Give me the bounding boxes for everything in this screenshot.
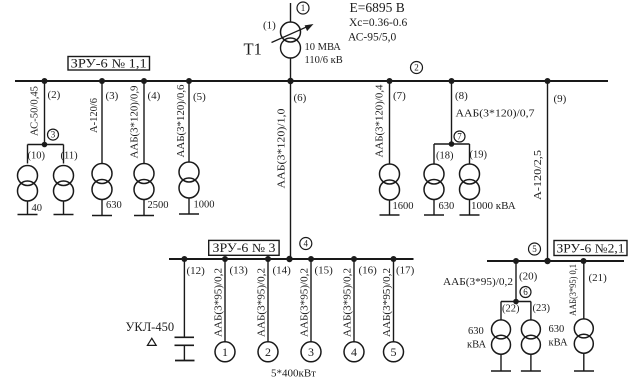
svg-text:ААБ(3*120)/1,0: ААБ(3*120)/1,0 — [276, 108, 288, 189]
ground — [424, 214, 444, 216]
transformer 4 — [134, 164, 154, 200]
svg-text:2: 2 — [265, 345, 271, 359]
wire branch 23 — [530, 302, 532, 321]
ground — [134, 215, 154, 217]
junction feeder 12 — [181, 256, 187, 262]
svg-text:ААБ(3*95)/0,2: ААБ(3*95)/0,2 — [443, 276, 513, 288]
junction feeder 13 — [222, 256, 228, 262]
node 1 — [297, 2, 309, 14]
wire feeder 21 — [583, 261, 585, 319]
svg-text:(4): (4) — [148, 90, 161, 102]
svg-text:(5): (5) — [193, 91, 206, 103]
svg-text:(10): (10) — [28, 151, 46, 162]
junction feeder 9 — [545, 78, 551, 84]
wire branch 22 — [500, 302, 502, 321]
ground — [54, 214, 74, 216]
svg-text:ААБ(3*95)/0,2: ААБ(3*95)/0,2 — [382, 268, 393, 337]
svg-text:ААБ(3*95)/0,2: ААБ(3*95)/0,2 — [300, 268, 311, 337]
wire feeder 13 — [224, 259, 226, 342]
svg-text:1000: 1000 — [194, 200, 215, 211]
wire branch bar 18-19 — [434, 143, 470, 145]
node 3 — [48, 129, 59, 140]
label 630 кВА left — [467, 326, 486, 351]
wire trunk feeder 6 — [290, 81, 292, 259]
svg-text:(7): (7) — [393, 90, 406, 102]
svg-text:ЗРУ-6 № 1,1: ЗРУ-6 № 1,1 — [71, 56, 147, 70]
wire transformer 7 to ground — [389, 200, 391, 215]
label ЗРУ-6 № 1,1 — [68, 56, 150, 70]
svg-text:1: 1 — [301, 3, 306, 13]
junction feeder 8 — [449, 78, 455, 84]
wire branch bar 10-11 — [28, 144, 64, 146]
node load 1 — [215, 342, 235, 362]
ground — [460, 214, 480, 216]
svg-text:УКЛ-450: УКЛ-450 — [126, 320, 175, 334]
transformer 3 — [92, 164, 112, 200]
node 7 — [454, 131, 465, 142]
svg-text:АС-50/0,45: АС-50/0,45 — [29, 86, 40, 136]
junction split feeder 8 — [449, 141, 455, 147]
wire incoming 110kV line — [290, 3, 292, 23]
wire feeder 8 — [451, 81, 453, 144]
svg-text:1: 1 — [222, 345, 228, 359]
svg-text:6: 6 — [523, 287, 528, 297]
svg-text:(17): (17) — [396, 265, 415, 277]
svg-text:ААБ(3*95)/0,2: ААБ(3*95)/0,2 — [343, 268, 354, 337]
svg-text:(21): (21) — [589, 272, 608, 284]
svg-text:А-120/2,5: А-120/2,5 — [533, 150, 544, 200]
capacitor bank УКЛ-450 — [175, 337, 195, 360]
transformer 19 — [460, 164, 480, 200]
wire transformer 11 to ground — [63, 201, 65, 215]
label delta symbol — [147, 338, 156, 345]
ground — [380, 214, 400, 216]
svg-text:40: 40 — [32, 203, 43, 214]
transformer 5 — [179, 162, 199, 198]
ground — [491, 370, 511, 372]
wire transformer 21 to ground — [583, 353, 585, 371]
transformer 11 — [54, 166, 74, 202]
svg-text:ААБ(3*120)/0,7: ААБ(3*120)/0,7 — [456, 108, 536, 120]
svg-text:(13): (13) — [230, 265, 249, 277]
label 630 кВА right — [549, 324, 568, 348]
svg-text:АС-95/5,0: АС-95/5,0 — [348, 32, 397, 44]
wire feeder 7 — [389, 81, 391, 164]
svg-text:4: 4 — [351, 345, 357, 359]
junction feeder 20 — [513, 258, 519, 264]
svg-text:5: 5 — [532, 244, 537, 254]
wire branch bar 22-23 — [501, 301, 531, 303]
wire feeder 20 — [515, 261, 517, 302]
node 5 — [529, 243, 541, 255]
junction T1 trunk on busbar — [287, 78, 293, 84]
svg-text:630: 630 — [439, 201, 455, 212]
svg-text:ААБ(3*95)/0,2: ААБ(3*95)/0,2 — [214, 268, 225, 337]
svg-text:(14): (14) — [273, 265, 292, 277]
junction feeder 7 — [387, 78, 393, 84]
transformer T1 — [272, 22, 314, 58]
wire branch 10 — [27, 145, 29, 164]
bus ЗРУ-6 №2,1 busbar — [487, 260, 624, 262]
junction feeder 15 — [308, 256, 314, 262]
wire branch 18 — [433, 144, 435, 164]
junction trunk on bus 3 — [286, 256, 292, 262]
junction feeder 2 — [42, 78, 48, 84]
wire transformer 18 to ground — [433, 200, 435, 216]
bus ЗРУ-6 №1,1 busbar — [15, 80, 608, 82]
svg-text:ААБ(3*95) 0,1: ААБ(3*95) 0,1 — [568, 264, 578, 316]
junction feeder 4 — [141, 78, 147, 84]
wire feeder 17 — [393, 259, 395, 342]
wire feeder 14 — [267, 259, 269, 342]
label ЗРУ-6 №2,1 — [554, 241, 627, 256]
junction feeder 14 — [265, 256, 271, 262]
wire feeder 12 — [183, 259, 185, 337]
junction feeder 16 — [351, 256, 357, 262]
transformer 22 — [492, 320, 511, 354]
svg-text:(11): (11) — [61, 151, 79, 162]
svg-text:3: 3 — [51, 130, 56, 140]
svg-text:(6): (6) — [294, 92, 307, 104]
svg-text:(1): (1) — [263, 20, 276, 32]
ground — [574, 370, 594, 372]
svg-text:(18): (18) — [436, 151, 454, 162]
wire transformer 10 to ground — [27, 201, 29, 215]
junction feeder 5 — [186, 78, 192, 84]
svg-text:ЗРУ-6 №2,1: ЗРУ-6 №2,1 — [557, 241, 625, 255]
junction split feeder 2 — [42, 142, 48, 148]
transformer 10 — [18, 166, 38, 202]
transformer 7 — [380, 164, 400, 200]
svg-text:5*400кВт: 5*400кВт — [271, 368, 316, 380]
svg-text:кВА: кВА — [467, 340, 486, 351]
svg-text:1000 кВА: 1000 кВА — [471, 200, 516, 212]
svg-text:(16): (16) — [359, 265, 378, 277]
wire transformer 23 to ground — [530, 354, 532, 371]
node 6 — [520, 287, 531, 298]
wire feeder 16 — [353, 259, 355, 342]
svg-text:ААБ(3*95)/0,2: ААБ(3*95)/0,2 — [257, 268, 268, 337]
wire feeder 2 — [44, 81, 46, 145]
ground — [18, 214, 38, 216]
wire feeder 15 — [310, 259, 312, 342]
wire T1 to busbar — [290, 58, 292, 81]
transformer 21 — [574, 319, 593, 353]
svg-text:(22): (22) — [502, 304, 520, 315]
svg-text:(19): (19) — [470, 150, 488, 161]
svg-text:А-120/6: А-120/6 — [89, 98, 100, 133]
junction feeder 21 — [581, 258, 587, 264]
node load 4 — [344, 342, 364, 362]
svg-text:110/6 кВ: 110/6 кВ — [305, 55, 343, 66]
svg-text:ААБ(3*120)/0,9: ААБ(3*120)/0,9 — [129, 86, 140, 159]
svg-text:Т1: Т1 — [244, 40, 262, 59]
svg-text:(20): (20) — [519, 271, 538, 283]
svg-text:Е=6895 В: Е=6895 В — [350, 0, 405, 15]
wire transformer 22 to ground — [500, 354, 502, 371]
node load 2 — [258, 342, 278, 362]
junction feeder 3 — [99, 78, 105, 84]
node load 3 — [301, 342, 321, 362]
junction feeder 9 on bus 2,1 — [544, 258, 550, 264]
wire transformer 4 to ground — [143, 200, 145, 216]
svg-text:ААБ(3*120)/0,6: ААБ(3*120)/0,6 — [176, 85, 187, 158]
ground — [92, 215, 112, 217]
node load 5 — [384, 342, 404, 362]
svg-text:630: 630 — [468, 326, 484, 337]
svg-text:2: 2 — [414, 63, 419, 73]
transformer 23 — [521, 320, 540, 354]
wire transformer 3 to ground — [101, 200, 103, 216]
node 2 — [411, 62, 423, 74]
wire feeder 5 — [188, 81, 190, 162]
wire branch 19 — [469, 144, 471, 164]
svg-text:2500: 2500 — [148, 200, 169, 211]
bus ЗРУ-6 №3 busbar — [169, 258, 414, 260]
junction feeder 17 — [391, 256, 397, 262]
svg-text:5: 5 — [391, 345, 397, 359]
wire feeder 3 — [101, 81, 103, 164]
wire transformer 5 to ground — [188, 198, 190, 214]
label ЗРУ-6 № 3 — [209, 240, 279, 255]
svg-text:Хс=0.36-0.6: Хс=0.36-0.6 — [349, 17, 407, 29]
svg-text:ЗРУ-6 № 3: ЗРУ-6 № 3 — [213, 241, 276, 255]
svg-text:(15): (15) — [315, 265, 334, 277]
svg-text:(8): (8) — [455, 90, 468, 102]
node 4 — [300, 238, 312, 250]
svg-text:1600: 1600 — [393, 201, 414, 212]
svg-text:кВА: кВА — [549, 337, 568, 348]
svg-text:630: 630 — [106, 200, 122, 211]
wire feeder 4 — [143, 81, 145, 164]
ground — [521, 370, 541, 372]
svg-text:(23): (23) — [533, 303, 551, 314]
svg-text:10 МВА: 10 МВА — [305, 42, 342, 53]
svg-text:(9): (9) — [554, 93, 567, 105]
wire transformer 19 to ground — [469, 200, 471, 216]
svg-text:(2): (2) — [48, 89, 61, 101]
wire branch 11 — [63, 145, 65, 164]
svg-text:630: 630 — [549, 324, 565, 335]
svg-text:3: 3 — [308, 345, 314, 359]
svg-text:ААБ(3*120)/0,4: ААБ(3*120)/0,4 — [374, 84, 385, 158]
svg-text:(12): (12) — [187, 265, 206, 277]
svg-text:4: 4 — [304, 239, 309, 249]
ground — [179, 213, 199, 215]
transformer 18 — [424, 164, 444, 200]
svg-text:7: 7 — [457, 132, 462, 142]
svg-text:(3): (3) — [106, 90, 119, 102]
wire feeder 9 — [547, 81, 549, 261]
junction split feeder 20 — [513, 299, 519, 305]
